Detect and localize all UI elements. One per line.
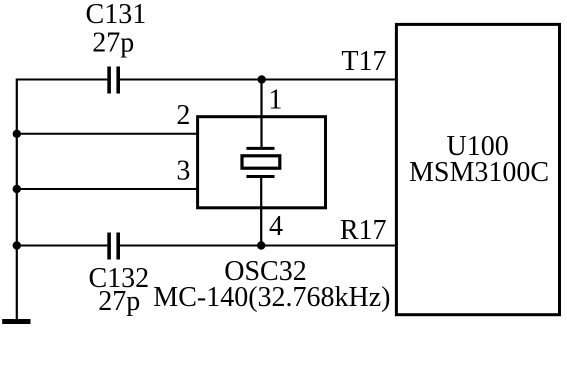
svg-text:2: 2	[176, 100, 190, 131]
junction dot bottom node	[257, 241, 265, 249]
svg-text:1: 1	[268, 85, 282, 116]
junction dot rail to bottom net	[13, 241, 21, 249]
junction dot rail to pin 3	[13, 185, 21, 193]
crystal element bottom plate	[246, 175, 274, 178]
wire bottom net left segment	[17, 245, 108, 247]
svg-text:27p: 27p	[92, 28, 134, 59]
crystal element body	[242, 156, 280, 168]
svg-text:MC-140(32.768kHz): MC-140(32.768kHz)	[153, 282, 390, 313]
wire crystal pin 1 vertical	[260, 80, 262, 149]
wire to crystal pin 3	[17, 188, 198, 190]
svg-text:T17: T17	[341, 46, 386, 77]
wire to crystal pin 2	[17, 133, 198, 135]
junction dot rail to pin 2	[13, 130, 21, 138]
capacitor C132	[107, 233, 120, 260]
svg-text:C131: C131	[86, 0, 147, 30]
junction dot top node	[258, 75, 266, 83]
wire crystal pin 4 vertical	[260, 177, 262, 246]
IC U100 outline box	[396, 24, 559, 314]
capacitor C131	[107, 67, 120, 94]
ground	[2, 319, 30, 324]
svg-text:4: 4	[269, 211, 283, 242]
wire top net left segment	[17, 79, 107, 81]
wire bottom net right segment to U100 pin R17	[120, 245, 396, 247]
crystal element top plate	[246, 147, 274, 150]
svg-text:MSM3100C: MSM3100C	[409, 157, 549, 188]
svg-text:3: 3	[176, 155, 190, 186]
crystal OSC32 outline box	[198, 117, 326, 208]
svg-text:27p: 27p	[98, 286, 140, 317]
wire left vertical rail	[16, 79, 18, 320]
svg-text:R17: R17	[340, 215, 387, 246]
wire top net right segment to U100 pin T17	[120, 79, 396, 81]
